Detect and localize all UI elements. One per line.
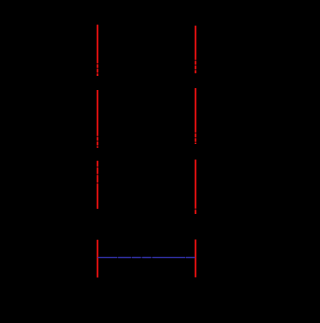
wire segment R11 [195,240,197,278]
wire segment L10 (dash) [97,168,99,174]
blue dashed horizontal connector between the two red lines [98,257,195,259]
wire segment R10 (dash) [195,210,197,214]
wire segment L12 [97,184,99,209]
right red line faint underlay [195,26,197,278]
right red dashed vertical line (node B lifeline) [195,26,197,278]
left red dashed vertical line (node A lifeline) [97,25,99,278]
wire segment L9 (dash) [97,161,99,167]
wire segment L3 (dash) [97,69,99,72]
wire segment L8 (dash) [97,147,99,148]
blue line faint underlay [98,257,195,259]
wire segment L1 [97,25,99,63]
wire segment L2 (dash) [97,65,99,68]
left red line faint underlay [97,25,99,278]
wire segment L7 (dash) [97,142,99,145]
wire segment L11 (dash) [97,175,99,182]
wire segment B1 (blue dash) [98,257,117,259]
wire segment L5 [97,90,99,136]
wire segment L4 (dash) [97,74,99,76]
wire segment B5 (blue dash) [152,257,185,259]
wire segment B2 (blue dash) [118,257,131,259]
wire segment R1 [195,26,197,60]
wire segment R3 (dash) [195,66,197,69]
wire segment L6 (dash) [97,137,99,140]
wire segment R7 (dash) [195,138,197,141]
wire segment R6 (dash) [195,134,197,137]
wire segment B4 (blue dash) [142,257,151,259]
wire segment R8 (dash) [195,143,197,144]
wire segment B6 (blue dash) [186,257,195,259]
wire segment R2 (dash) [195,61,197,64]
wire segment R9 [195,160,197,209]
wire segment R4 (dash) [195,70,197,73]
wire segment B3 (blue dash) [132,257,141,259]
wire segment L13 [97,240,99,278]
wire segment R5 [195,88,197,132]
